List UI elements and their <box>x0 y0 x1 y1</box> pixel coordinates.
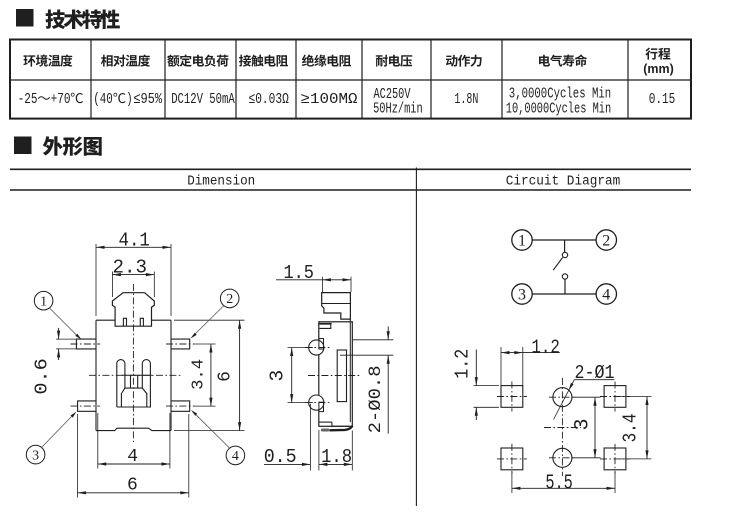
svg-text:3: 3 <box>518 286 526 303</box>
svg-text:≤0.03Ω: ≤0.03Ω <box>249 91 289 108</box>
svg-text:+70: +70 <box>51 91 71 108</box>
front view pin 3 (bottom-left terminal) <box>78 401 96 411</box>
svg-text:5.5: 5.5 <box>545 473 573 496</box>
value 环境温度 -25~+70℃ <box>18 91 83 108</box>
svg-text:2.3: 2.3 <box>113 257 148 279</box>
svg-text:3.4: 3.4 <box>619 414 641 443</box>
wire upper tap <box>564 240 566 252</box>
side view boss bottom centerline <box>305 402 330 404</box>
svg-text:50Hz/min: 50Hz/min <box>373 101 423 118</box>
switch lower contact node <box>562 274 567 279</box>
side view boss pin bottom (φ0.8) <box>309 395 324 412</box>
hole top cross <box>549 396 576 398</box>
svg-text:1.8: 1.8 <box>321 446 352 468</box>
value 行程 <box>649 91 676 108</box>
drawing area top rule <box>10 168 691 170</box>
pcb pad 3 (bottom-left) <box>501 448 523 470</box>
drawing area header rule <box>10 189 691 191</box>
svg-text:Dimension: Dimension <box>187 174 255 190</box>
svg-text:4: 4 <box>127 447 138 467</box>
svg-text:10,0000Cycles Min: 10,0000Cycles Min <box>506 101 611 118</box>
table header row <box>23 54 587 66</box>
switch movable arm <box>553 258 562 271</box>
hole center cross <box>544 427 581 429</box>
svg-text:4: 4 <box>232 449 239 464</box>
front view plunger button <box>112 293 154 327</box>
callout circle 3 <box>26 445 45 464</box>
svg-text:Circuit Diagram: Circuit Diagram <box>506 174 621 190</box>
dimension 3.4 (pad row pitch) <box>619 397 652 459</box>
callout circle 4 <box>226 446 245 465</box>
dimension 1.5 (plunger depth) <box>276 262 351 292</box>
dimension 3 (boss pitch) <box>266 348 313 403</box>
callout leader 4 <box>191 410 230 448</box>
svg-text:-25: -25 <box>18 91 38 108</box>
side view body <box>319 319 353 426</box>
value 耐电压 <box>373 86 423 117</box>
front view horizontal centerline <box>89 374 181 376</box>
svg-text:1: 1 <box>40 295 47 310</box>
dimension 2-Ø0.8 (boss diameter) <box>340 327 393 434</box>
circuit terminal 4 <box>596 284 616 304</box>
svg-text:4: 4 <box>602 286 610 303</box>
svg-text:1.5: 1.5 <box>283 262 314 284</box>
dimension 2-Ø1 (hole diameter callout) <box>554 362 615 420</box>
dimension 6 (terminal span) <box>78 414 189 498</box>
dimension 2.3 (plunger width) <box>112 257 154 297</box>
svg-text:2-Ø0.8: 2-Ø0.8 <box>366 365 386 433</box>
svg-text:2-Ø1: 2-Ø1 <box>575 362 615 384</box>
dimension 3.4 (pin pitch front view) <box>190 344 216 406</box>
section title 外形图 <box>43 136 102 156</box>
wire terminal3-terminal4 <box>532 293 596 295</box>
callout leader 3 <box>42 412 77 448</box>
circuit terminal 2 <box>596 230 616 250</box>
pin 3 centerline <box>71 405 101 407</box>
front view plunger guide feet <box>123 318 143 326</box>
dimension 1.2 vertical (pad height) <box>452 349 499 420</box>
side view plunger <box>322 293 351 320</box>
svg-text:≤95%: ≤95% <box>133 91 163 108</box>
svg-text:0.15: 0.15 <box>649 91 676 108</box>
svg-text:DC12V 50mA: DC12V 50mA <box>171 91 235 108</box>
dimension 1.2 horizontal (pad width) <box>501 337 560 386</box>
svg-text:6: 6 <box>127 475 138 495</box>
svg-text:3.4: 3.4 <box>190 359 209 390</box>
wire lower tap <box>564 279 566 294</box>
pad 1 centerlines <box>497 382 527 412</box>
pcb hole top (φ1) <box>553 388 572 407</box>
svg-text:(40: (40 <box>93 91 113 108</box>
pin 2 centerline <box>166 343 194 345</box>
pad 3 centerlines <box>497 444 527 474</box>
dimension 0.6 (pin thickness) <box>33 328 78 395</box>
section title 技术特性 <box>45 9 119 29</box>
value 额定电负荷 <box>171 91 235 108</box>
pcb pad 1 (top-left) <box>501 386 523 408</box>
dimension 0.5 (pin protrusion) <box>264 404 311 471</box>
dimension 5.5 (pad column span) <box>512 472 615 496</box>
value 绝缘电阻 <box>301 91 358 108</box>
dimension 4 (pin inner span) <box>98 413 170 469</box>
svg-text:≥100MΩ: ≥100MΩ <box>301 91 358 108</box>
front view pin 1 (top-left terminal) <box>76 339 96 349</box>
hole column centerline <box>561 378 563 476</box>
pcb pad 2 (top-right) <box>604 386 626 408</box>
callout leader 2 <box>191 306 224 339</box>
pcb pad 4 (bottom-right) <box>604 448 626 470</box>
front view pin 2 (top-right terminal) <box>171 339 190 349</box>
spec table grid <box>10 40 691 119</box>
svg-text:2: 2 <box>602 232 610 249</box>
svg-text:0.6: 0.6 <box>33 358 53 395</box>
label Circuit Diagram <box>506 174 621 190</box>
table header 行程(mm) <box>643 48 674 76</box>
drawing area divider <box>415 168 417 507</box>
circuit terminal 1 <box>512 230 532 250</box>
value 接触电阻 <box>249 91 289 108</box>
pad 4 centerlines <box>600 444 630 474</box>
pin 4 centerline <box>166 405 194 407</box>
side view horizontal centerline <box>308 375 360 377</box>
pad 2 centerlines <box>600 382 630 412</box>
callout circle 1 <box>34 291 53 310</box>
switch fixed contact node <box>562 252 567 257</box>
wire terminal1-terminal2 <box>532 239 596 241</box>
side view boss top centerline <box>305 347 330 349</box>
svg-text:1.8N: 1.8N <box>454 91 478 108</box>
svg-text:1: 1 <box>518 232 526 249</box>
pcb hole bottom (φ1) <box>553 448 572 467</box>
svg-text:6: 6 <box>216 371 236 382</box>
dimension 4.1 (front view top width) <box>96 230 171 317</box>
callout leader 1 <box>50 308 82 340</box>
value 动作力 <box>454 91 478 108</box>
section title marker 2 (black square) <box>15 137 32 154</box>
callout circle 2 <box>220 289 239 308</box>
side view boss pin top (φ0.8) <box>309 339 324 356</box>
front view center contact spring <box>117 360 152 407</box>
front view vertical centerline <box>132 284 134 442</box>
svg-text:4.1: 4.1 <box>118 230 150 252</box>
svg-text:1.2: 1.2 <box>452 349 474 379</box>
dimension 3 (hole pitch) <box>572 397 601 458</box>
label Dimension <box>187 174 255 190</box>
section title marker (black square) <box>17 10 34 27</box>
svg-text:3: 3 <box>32 448 39 463</box>
value 电气寿命 <box>506 86 611 118</box>
front view switch body <box>96 320 171 430</box>
hole bottom cross <box>549 457 576 459</box>
dimension 1.8 (body depth) <box>319 430 352 471</box>
pin 1 centerline <box>71 343 101 345</box>
svg-text:3: 3 <box>266 370 288 382</box>
svg-text:0.5: 0.5 <box>264 446 297 468</box>
value 相对温度 (40℃)≤95% <box>93 91 163 108</box>
svg-text:(mm): (mm) <box>643 62 674 76</box>
circuit terminal 3 <box>512 284 532 304</box>
svg-text:3: 3 <box>572 418 595 430</box>
side view terminal strip bottom <box>321 426 352 432</box>
svg-text:1.2: 1.2 <box>531 337 560 359</box>
dimension 6 (body height) <box>174 320 245 430</box>
front view pin 4 (bottom-right terminal) <box>171 401 190 411</box>
svg-text:2: 2 <box>226 292 233 307</box>
svg-text:): ) <box>126 91 132 108</box>
